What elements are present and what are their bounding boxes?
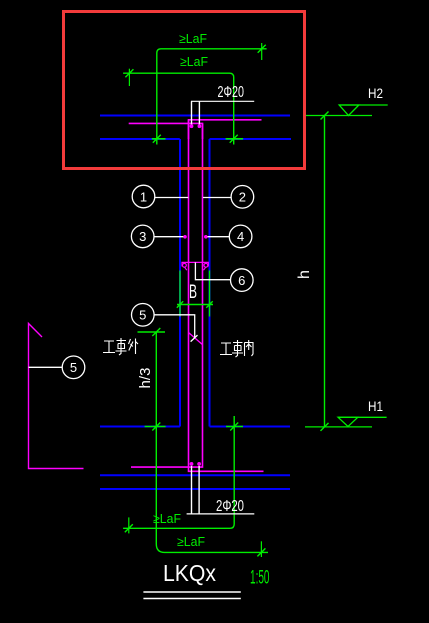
svg-text:h: h: [296, 270, 313, 279]
wall left face (blue vertical): [179, 139, 181, 427]
svg-text:≥LaF: ≥LaF: [153, 511, 181, 526]
top slab rebar B (magenta, right bar bent left): [129, 123, 203, 139]
bottom slab bottom line (blue): [100, 488, 290, 490]
callout circle 4: [208, 225, 252, 248]
starter bar cap with pigtail hooks (magenta): [182, 262, 208, 270]
callout circle 2: [203, 186, 254, 209]
svg-text:3: 3: [139, 229, 146, 244]
h/3 bottom tick on slab: [145, 426, 166, 428]
svg-text:≥LaF: ≥LaF: [179, 31, 207, 46]
bottom slab top line right (blue): [210, 426, 291, 428]
H1 symbol underline (green): [338, 416, 387, 418]
svg-text:≥LaF: ≥LaF: [177, 534, 205, 549]
top slab rebar A (magenta, left bar bent right): [189, 120, 262, 139]
svg-text:≥LaF: ≥LaF: [180, 54, 208, 69]
left magenta boundary polyline: [29, 324, 84, 469]
callout circle 5b: [29, 356, 85, 379]
svg-text:1: 1: [140, 189, 147, 204]
callout circle 5a: [132, 304, 198, 342]
bottom slab top line left (blue): [100, 426, 180, 428]
lower LaF left tick: [125, 69, 133, 77]
h/3 + bottom-right LaF shared extension vertical (green): [156, 332, 268, 552]
B dim extension line left (green): [179, 271, 181, 317]
svg-text:5: 5: [70, 360, 77, 375]
top slab bottom line right + wall corner (blue): [210, 138, 292, 140]
callout circle 3: [131, 225, 183, 248]
upper LaF right tick: [258, 45, 266, 53]
2phi20 top: leader verticals (white): [191, 101, 193, 124]
H1 level line (green): [305, 426, 372, 428]
h dim tick top: [321, 112, 329, 120]
svg-text:h/3: h/3: [137, 368, 154, 389]
P2 right tick: [257, 548, 265, 556]
svg-text:H1: H1: [368, 398, 383, 414]
callout circle 6: [195, 262, 253, 291]
upper LaF bottom tick on slab: [152, 138, 166, 140]
H1 triangle (green): [338, 417, 358, 426]
2phi20 bottom: underline (white): [187, 513, 255, 515]
top slab top line (blue): [100, 115, 290, 117]
bottom LaF dim P1 polyline (green): [123, 416, 234, 528]
svg-text:4: 4: [237, 229, 244, 244]
upper LaF right extension line: [261, 43, 263, 60]
svg-text:2Φ20: 2Φ20: [218, 84, 245, 101]
B dim extension line right (green): [209, 271, 211, 317]
svg-text:LKQx: LKQx: [163, 560, 216, 586]
lower LaF bottom tick on slab: [226, 138, 244, 140]
P2 right extension line: [260, 541, 262, 557]
H2 symbol underline (green): [339, 104, 388, 106]
H2 triangle (green): [339, 105, 359, 116]
top slab bottom line left + wall corner (blue): [100, 138, 180, 140]
P1 left extension line: [128, 517, 130, 533]
h/3 top tick bar: [138, 331, 166, 333]
wall right face (blue vertical): [209, 139, 211, 427]
lower LaF left extension line: [128, 69, 130, 86]
callout circle 1: [132, 185, 188, 208]
rebar cut diagonal (magenta): [189, 333, 203, 345]
red highlight rectangle: [64, 12, 305, 169]
h dim tick bottom: [321, 423, 329, 431]
B dim line (green): [177, 301, 213, 307]
2phi20 top: dot arrowheads (magenta): [190, 124, 194, 128]
svg-text:H2: H2: [368, 85, 383, 101]
upper LaF dim polyline (green): [157, 49, 267, 145]
wall rebar right (magenta vertical, bent left at bottom): [131, 123, 203, 467]
2phi20 top: underline (white): [191, 100, 254, 102]
P1 left tick: [125, 524, 133, 532]
svg-text:2Φ20: 2Φ20: [216, 498, 244, 515]
bottom slab lower line (blue): [100, 474, 290, 476]
wall rebar left (magenta vertical, bent right at bottom): [189, 120, 264, 472]
svg-text:6: 6: [238, 273, 245, 288]
svg-text:1:50: 1:50: [250, 568, 270, 589]
2phi20 bottom: dot arrowheads (magenta): [190, 462, 194, 466]
svg-text:B: B: [189, 282, 197, 303]
工事内 label (stroke-drawn): [220, 340, 253, 357]
title double underline: [143, 591, 240, 593]
H2 level line (green): [306, 115, 372, 117]
工事外 label (stroke-drawn): [103, 338, 138, 355]
svg-text:2: 2: [239, 190, 246, 205]
lower LaF dim polyline (green): [123, 73, 234, 144]
svg-text:5: 5: [139, 308, 146, 323]
2phi20 bottom: leader verticals (white): [191, 466, 193, 514]
P1 top tick on slab: [226, 426, 243, 428]
h dim line (green vertical right): [324, 116, 326, 427]
